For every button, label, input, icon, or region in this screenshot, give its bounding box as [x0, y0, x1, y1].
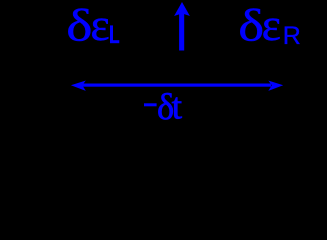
label minus-delta-t : minus — [144, 103, 157, 106]
svg-text:ε: ε — [262, 0, 281, 50]
up arrow — [174, 2, 190, 51]
svg-text:t: t — [172, 87, 183, 124]
svg-text:ε: ε — [90, 0, 109, 50]
svg-text:δ: δ — [66, 0, 92, 51]
horizontal double arrow — [71, 81, 283, 91]
svg-text:δ: δ — [238, 0, 264, 51]
label delta-epsilon-L : subscript L — [110, 25, 119, 43]
svg-text:R: R — [283, 22, 301, 50]
